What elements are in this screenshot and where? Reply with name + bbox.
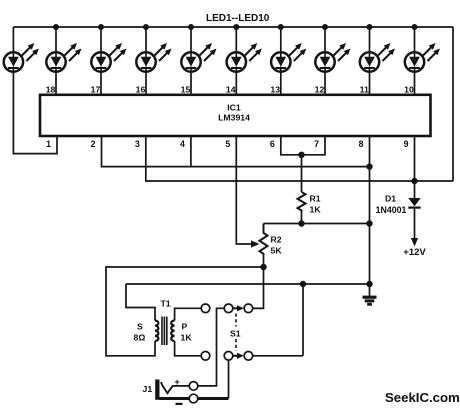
- wire LED5 cathode to pin 15: [190, 72, 192, 95]
- wire R1 bottom: [301, 212, 303, 224]
- LED LED10: [405, 27, 440, 72]
- junction bus/LED7: [278, 24, 284, 30]
- svg-text:1K: 1K: [181, 333, 193, 343]
- wire LED7 cathode to pin 13: [280, 72, 282, 95]
- svg-text:4: 4: [180, 139, 185, 149]
- junction pins 6-7 node: [298, 152, 304, 158]
- svg-text:IC1: IC1: [227, 103, 241, 113]
- wire R1/R2/pin8 node rail: [264, 223, 370, 225]
- LED LED5: [181, 27, 216, 72]
- svg-text:+12V: +12V: [403, 247, 426, 258]
- svg-text:8Ω: 8Ω: [134, 333, 146, 343]
- wire J1 minus to S1: [198, 397, 229, 400]
- wire LED2 cathode to pin 18: [55, 72, 57, 95]
- svg-text:1: 1: [46, 139, 51, 149]
- svg-text:LM3914: LM3914: [218, 113, 250, 123]
- wire LED1 cathode to pin 1: [13, 72, 57, 154]
- junction S1 return on ground rail: [300, 281, 306, 287]
- LED LED4: [136, 27, 171, 72]
- junction bus/LED6: [233, 24, 239, 30]
- svg-text:LED1--LED10: LED1--LED10: [206, 13, 270, 24]
- wire pin 8 column to ground: [369, 136, 371, 296]
- svg-text:2: 2: [91, 139, 96, 149]
- junction bus/LED8: [322, 24, 328, 30]
- wire pin 9 stub: [414, 136, 416, 181]
- junction bus/LED5: [188, 24, 194, 30]
- svg-text:SeekIC.com: SeekIC.com: [385, 390, 460, 405]
- junction bus/LED3: [98, 24, 104, 30]
- wire LED10 cathode to pin 10: [414, 72, 416, 95]
- svg-text:3: 3: [135, 139, 140, 149]
- junction bus/LED9: [367, 24, 373, 30]
- switch S1 bottom pole terminals: [224, 352, 233, 361]
- wire pin 4 stub: [190, 136, 192, 167]
- terminal T1 primary top: [201, 304, 210, 313]
- junction bus/LED4: [143, 24, 149, 30]
- svg-text:13: 13: [270, 84, 280, 94]
- resistor R1: [298, 192, 306, 212]
- LED LED7: [271, 27, 306, 72]
- R2 wiper arrowhead: [251, 240, 260, 247]
- svg-text:10: 10: [404, 84, 414, 94]
- wire S1 top-left to J1 tip: [198, 308, 224, 386]
- wire T1 secondary top to ground rail: [126, 284, 155, 321]
- svg-text:D1: D1: [385, 194, 396, 204]
- connector J1 tip contact: [161, 382, 173, 393]
- junction rail/pin8: [366, 220, 372, 226]
- wire S1 bottom-right to ground rail: [253, 284, 303, 356]
- wire T1 primary top terminal: [175, 308, 202, 320]
- junction R2 bottom / input node: [260, 264, 266, 270]
- svg-text:11: 11: [360, 84, 369, 94]
- ground symbol: [363, 297, 377, 304]
- switch S1 top pole terminals: [224, 304, 233, 313]
- switch S1 gang link dashed: [235, 314, 237, 352]
- junction pin8/ground rail: [366, 163, 372, 169]
- wire LED9 cathode to pin 11: [369, 72, 371, 95]
- svg-text:S1: S1: [230, 329, 241, 339]
- svg-text:6: 6: [270, 139, 275, 149]
- junction ground node: [366, 281, 372, 287]
- svg-text:S: S: [137, 322, 143, 332]
- svg-text:1K: 1K: [310, 205, 322, 215]
- svg-text:R2: R2: [271, 235, 282, 245]
- wire J1 sleeve run: [160, 397, 190, 400]
- svg-text:P: P: [182, 322, 188, 332]
- wire R2 bottom to switch: [253, 255, 264, 308]
- wire J1 tip to terminal: [173, 385, 189, 387]
- junction pin9/V+ rail: [411, 178, 417, 184]
- svg-text:14: 14: [226, 84, 236, 94]
- svg-text:J1: J1: [143, 384, 153, 394]
- terminal J1 minus: [189, 394, 198, 403]
- wire pin 2 to ground rail: [102, 136, 370, 167]
- svg-text:7: 7: [314, 139, 319, 149]
- wire pin 6 / pin 7 bracket: [281, 136, 325, 155]
- svg-text:8: 8: [359, 139, 364, 149]
- wire S1 top-right to R2 node: [253, 307, 264, 309]
- wire LED8 cathode to pin 12: [324, 72, 326, 95]
- wire LED3 cathode to pin 17: [100, 72, 102, 95]
- LED LED1: [4, 27, 39, 72]
- LED LED6: [227, 27, 262, 72]
- svg-text:18: 18: [46, 84, 56, 94]
- wire node 6-7 down to R1: [301, 155, 303, 192]
- wire ground rail: [126, 283, 370, 285]
- svg-text:5K: 5K: [271, 246, 283, 256]
- terminal J1 plus: [189, 382, 198, 391]
- transformer T1: [155, 317, 175, 346]
- wire LED6 cathode to pin 14: [235, 72, 237, 95]
- svg-text:T1: T1: [161, 299, 171, 309]
- svg-text:12: 12: [315, 84, 325, 94]
- svg-text:R1: R1: [310, 194, 321, 204]
- wire pin 3 V+ rail: [146, 136, 453, 181]
- diode D1 1N4001: [408, 181, 420, 247]
- potentiometer R2: [260, 224, 268, 256]
- connector J1 body: [155, 380, 159, 400]
- LED LED9: [360, 27, 395, 72]
- svg-text:17: 17: [91, 84, 101, 94]
- wire LED anode bus: [13, 26, 453, 28]
- LED LED3: [91, 27, 126, 72]
- svg-text:15: 15: [181, 84, 191, 94]
- svg-text:9: 9: [404, 139, 409, 149]
- wire S1 bottom-left to J1 sleeve: [228, 360, 230, 398]
- wire LED4 cathode to pin 16: [145, 72, 147, 95]
- junction bus/LED2: [53, 24, 59, 30]
- LED LED8: [315, 27, 350, 72]
- switch S1 bottom pole arrow: [233, 355, 238, 357]
- wire pin 5 to R2 wiper: [236, 136, 253, 244]
- wire right edge V+ riser: [452, 27, 454, 181]
- label minus: [176, 403, 183, 405]
- LED LED2: [46, 27, 81, 72]
- svg-text:16: 16: [136, 84, 146, 94]
- switch S1 top pole arrow: [233, 307, 238, 309]
- terminal T1 primary bottom: [201, 352, 210, 361]
- wire T1 primary bottom terminal: [175, 341, 202, 356]
- svg-text:1N4001: 1N4001: [376, 205, 407, 215]
- op-amp IC1 LM3914 body: [40, 95, 431, 136]
- wire T1 secondary bottom to input node: [106, 267, 264, 356]
- junction R1 bottom: [298, 220, 304, 226]
- svg-text:5: 5: [225, 139, 230, 149]
- junction bus/LED10: [412, 24, 418, 30]
